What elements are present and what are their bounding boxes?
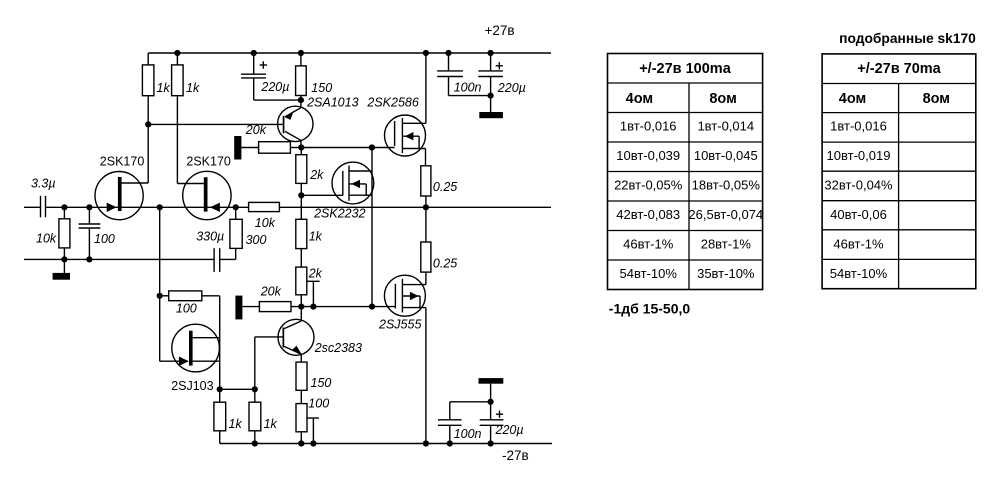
value label 100 [94,232,115,246]
node +27в label [485,23,515,38]
svg-text:2SK2232: 2SK2232 [313,206,365,220]
value label 1k [229,417,243,431]
svg-text:54вт-10%: 54вт-10% [830,266,888,281]
svg-text:подобранные sk170: подобранные sk170 [839,31,976,46]
svg-text:2sc2383: 2sc2383 [314,341,362,355]
svg-text:20k: 20k [245,123,267,137]
node junction dot output rail [423,204,429,210]
transistor Q 2sc2383 (NPN) [278,307,314,363]
svg-text:2SK2586: 2SK2586 [366,95,418,109]
resistor R 10k (input to ground) [59,207,70,259]
capacitor C 220µ (upper supply electrolytic) [478,53,503,96]
node junction dot upper ground tie [488,93,494,99]
node junction dot input 10k [61,204,67,210]
capacitor C 3.3µ (input coupling) [41,196,46,218]
value label 1k [264,417,278,431]
resistor R 10k (feedback series, in output line) [249,202,280,211]
value label 100 [176,302,197,316]
node junction dot 100 resistor tap [157,293,163,299]
ground (upper supply) [479,96,503,119]
svg-text:54вт-10%: 54вт-10% [620,266,678,281]
node junction dot input 100 cap [86,204,92,210]
resistor R 1k (left bias) [214,389,226,443]
wire input line to feedback 10k [46,206,249,208]
node junction dot 100n cap on rail [445,50,451,56]
svg-text:40вт-0,06: 40вт-0,06 [830,207,887,222]
node junction dot on rail (second 1k) [174,50,180,56]
capacitor C 100n (lower supply bypass) [438,402,491,444]
svg-text:220µ: 220µ [260,80,289,94]
node junction dot common source node [157,204,163,210]
value label 1k [186,81,200,95]
capacitor C 220µ (emitter bypass of 2SA1013) [241,53,301,100]
svg-text:330µ: 330µ [196,230,224,244]
table 2 (+/-27в 70ma measurements) [822,54,976,289]
wire lower ground/feedback line [24,258,214,260]
transistor Q 2SK2586 (N-MOSFET upper output) [385,53,426,166]
value label 0.25 [433,180,457,194]
ground (input) [53,259,70,279]
value label 220µ [497,81,526,95]
transistor Q 2SA1013 (PNP VAS) [278,100,313,147]
wire base of 2SA1013 to first 2SK170 drain [148,123,283,125]
capacitor C 100 (input shunt) [79,207,101,259]
value label 220µ [260,80,289,94]
svg-text:1вт-0,016: 1вт-0,016 [830,118,887,133]
resistor R 1k (middle column) [296,195,307,248]
node junction dot base wire on 1k column [145,121,151,127]
svg-text:46вт-1%: 46вт-1% [623,236,674,251]
wire input line left segment [24,206,40,208]
svg-text:26,5вт-0,074: 26,5вт-0,074 [688,207,763,222]
device label 2SJ103 [171,379,213,393]
svg-text:-27в: -27в [502,448,529,463]
svg-text:10k: 10k [36,232,57,246]
capacitor C 220µ (lower supply electrolytic) [480,402,504,444]
device label 2SK170 [186,154,231,168]
wire gate lead of 2SK2232 [301,194,343,196]
svg-text:10вт-0,039: 10вт-0,039 [616,148,680,163]
value label 10k [36,232,57,246]
resistor R 0.25 (upper source resistor) [421,166,431,208]
node junction dot 2SJ555 gate line [369,304,375,310]
wire gate lead of 2SJ103 [160,360,188,362]
value label 330µ [196,230,224,244]
svg-text:22вт-0,05%: 22вт-0,05% [614,177,683,192]
svg-text:1вт-0,016: 1вт-0,016 [620,118,677,133]
node -27в label [502,448,529,463]
node junction dot lower bias wire [310,304,316,310]
wire base feed of 2sc2383 [255,337,283,389]
node junction dot 220µ cap on rail [488,50,494,56]
resistor R 100 (lower) [296,404,307,444]
node junction dot bottom rail 1k [252,440,258,446]
device label 2SK2232 [313,206,365,220]
terminal black bar of lower 20k [235,296,242,320]
svg-text:1k: 1k [264,417,278,431]
node junction dot gate line of 2SK2586 [369,144,375,150]
wire collector node to 2SK2586 gate [301,147,394,149]
resistor R 1k (drain load of first 2SK170) [142,53,154,183]
node junction dot tail node left [217,386,223,392]
svg-text:2SK170: 2SK170 [186,154,231,168]
resistor R 150 (lower emitter) [296,362,307,404]
svg-text:150: 150 [311,376,332,390]
svg-text:1k: 1k [157,81,171,95]
value label 100n [454,427,482,441]
svg-text:2k: 2k [308,267,323,281]
terminal black bar of upper 20k [234,136,241,160]
resistor R 150 (emitter resistor of 2SA1013) [296,53,307,100]
transistor Q 2SK170 second (JFET input pair right, mirrored) [177,171,231,219]
device label 2sc2383 [314,341,362,355]
svg-text:0.25: 0.25 [433,256,457,270]
value label 0.25 [433,256,457,270]
value label 100n [454,80,482,94]
transistor Q 2SK170 first (JFET input pair left) [95,172,148,220]
node junction dot lower ground tie [488,399,494,405]
wire right side vertical of 2SJ103 [219,296,221,390]
svg-text:2SK170: 2SK170 [100,154,145,168]
transistor Q 2SJ103 (current source JFET) [172,324,220,372]
node junction dot drain of 2SK2586 on rail [423,50,429,56]
device label 2SA1013 [306,95,358,109]
svg-text:2SJ103: 2SJ103 [171,379,213,393]
resistor R 1k (drain load of second 2SK170) [172,53,184,184]
svg-text:100: 100 [308,397,329,411]
ground (lower supply) [479,378,504,402]
svg-text:28вт-1%: 28вт-1% [701,236,752,251]
svg-text:4ом: 4ом [839,91,866,107]
value label 150 [311,376,332,390]
node junction dot gate node of 2SK2232 [298,192,304,198]
node junction dot ground line 10k [61,256,67,262]
node junction dot emitter of 2SA1013 [298,97,304,103]
table 1 (+/-27в 100ma measurements) [608,54,763,290]
wire +27V top rail [148,52,551,54]
value label 100 [308,397,329,411]
transistor Q 2SJ555 (P-MOSFET lower output) [384,275,426,443]
value label 300 [246,233,267,247]
node junction dot bottom rail stub [310,440,316,446]
wire VAS vertical (2SK2586 gate to 2SJ555 gate) [371,148,373,307]
value label 20k [260,285,282,299]
node junction dot collector of 2SA1013 [298,144,304,150]
value label 1k [157,81,171,95]
svg-text:1вт-0,014: 1вт-0,014 [697,118,754,133]
svg-text:10вт-0,045: 10вт-0,045 [694,148,758,163]
svg-text:20k: 20k [260,285,282,299]
svg-text:42вт-0,083: 42вт-0,083 [616,207,680,222]
wire bypass stub beside lower 2k [307,281,320,306]
svg-text:100: 100 [176,302,197,316]
node junction dot ground line 100 [86,256,92,262]
resistor R 0.25 (lower source resistor) [421,207,431,284]
node junction dot bottom rail 100n [447,440,453,446]
node junction dot lower 20k / collector [298,304,304,310]
node junction dot bottom rail output device [423,440,429,446]
svg-text:18вт-0,05%: 18вт-0,05% [692,177,761,192]
svg-text:300: 300 [246,233,267,247]
device label 2SK170 [100,154,145,168]
value label 220µ [495,423,524,437]
resistor R 2k (lower) [296,249,307,307]
resistor R 100 (2SJ103 source) [160,291,220,301]
svg-text:10вт-0,019: 10вт-0,019 [827,148,891,163]
node junction dot on rail (220µ cap) [251,50,257,56]
resistor R 20k (upper bias) [241,142,301,154]
svg-text:4ом: 4ом [626,91,653,107]
value label 1k [309,230,323,244]
wire common source down to current source [159,207,161,361]
value label 3.3µ [31,177,56,191]
svg-text:35вт-10%: 35вт-10% [697,266,755,281]
svg-text:220µ: 220µ [495,423,524,437]
value label 2k [309,168,324,182]
node junction dot bottom rail 100 [298,440,304,446]
node junction dot feedback node [233,204,239,210]
transistor Q 2SK2232 (N-MOSFET) [332,162,374,204]
wire output rail right of 10k [279,206,551,208]
device label 2SK2586 [366,95,418,109]
resistor R 2k (upper, collector load) [296,148,307,196]
svg-text:+27в: +27в [485,23,515,38]
resistor R 300 (feedback shunt) [230,207,242,248]
node junction dot on rail (150 resistor) [298,50,304,56]
resistor R 20k (lower bias) [242,302,395,312]
capacitor C 330µ (feedback) [214,248,236,272]
svg-text:8ом: 8ом [709,91,736,107]
svg-text:+/-27в 100ma: +/-27в 100ma [639,61,731,77]
svg-text:1k: 1k [309,230,323,244]
svg-text:32вт-0,04%: 32вт-0,04% [824,177,893,192]
svg-text:8ом: 8ом [923,91,950,107]
wire tail node horizontal [220,388,255,390]
device label 2SJ555 [378,318,421,332]
resistor R 1k (right bias) [249,389,261,443]
svg-text:1k: 1k [186,81,200,95]
svg-text:3.3µ: 3.3µ [31,177,56,191]
wire bypass stub beside 100 [307,418,319,444]
value label 20k [245,123,267,137]
svg-text:2SA1013: 2SA1013 [306,95,358,109]
node junction dot tail node right [252,386,258,392]
svg-text:100n: 100n [454,80,482,94]
svg-text:1k: 1k [229,417,243,431]
svg-text:2k: 2k [309,168,324,182]
value label 10k [255,216,276,230]
value label 2k [308,267,323,281]
node junction dot bottom rail 220µ [488,440,494,446]
svg-text:100: 100 [94,232,115,246]
svg-text:220µ: 220µ [497,81,526,95]
svg-text:46вт-1%: 46вт-1% [833,236,884,251]
svg-text:-1дб 15-50,0: -1дб 15-50,0 [609,300,691,316]
svg-text:0.25: 0.25 [433,180,457,194]
svg-text:2SJ555: 2SJ555 [378,318,421,332]
wire -27V bottom rail [220,443,552,445]
svg-text:10k: 10k [255,216,276,230]
svg-text:100n: 100n [454,427,482,441]
svg-text:+/-27в 70ma: +/-27в 70ma [857,61,941,77]
svg-text:150: 150 [311,81,332,95]
value label 150 [311,81,332,95]
capacitor C 100n (upper supply bypass) [437,53,490,96]
